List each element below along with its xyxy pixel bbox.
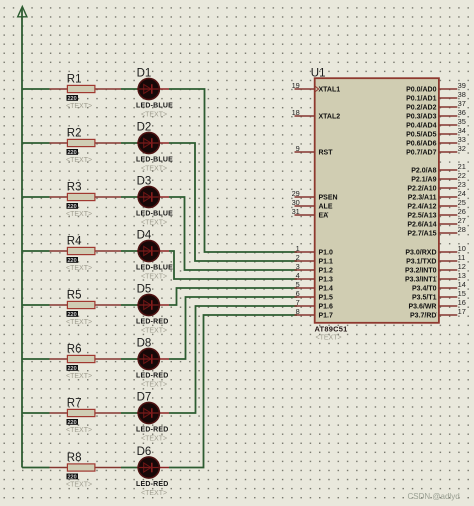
pin 19 XTAL1 (left) (292, 81, 341, 93)
wire: LED D1 to U1 pin P1.0 (169, 89, 297, 252)
wire: resistor R2 to LED D2 (121, 142, 138, 144)
wire: bus to resistor R7 (22, 412, 50, 414)
LED D1 LED-BLUE (136, 68, 173, 119)
wire: LED D5 to U1 pin P1.4 (169, 288, 297, 305)
svg-text:D3: D3 (137, 176, 152, 188)
svg-text:XTAL2: XTAL2 (319, 114, 341, 121)
svg-text:36: 36 (458, 108, 466, 117)
svg-text:P0.5/AD5: P0.5/AD5 (406, 132, 436, 139)
svg-text:6: 6 (296, 289, 300, 298)
svg-text:P1.2: P1.2 (319, 268, 334, 275)
svg-text:220: 220 (68, 150, 77, 156)
svg-text:D6: D6 (137, 446, 152, 458)
svg-text:PSEN: PSEN (319, 195, 338, 202)
wire: resistor R8 to LED D6 (121, 467, 138, 469)
svg-text:P1.3: P1.3 (319, 277, 334, 284)
pin 31 EA (left) (292, 207, 329, 219)
svg-text:P2.0/A8: P2.0/A8 (411, 168, 436, 175)
svg-text:P1.6: P1.6 (319, 304, 334, 311)
svg-text:RST: RST (319, 150, 334, 157)
svg-text:LED-BLUE: LED-BLUE (136, 265, 173, 272)
svg-text:R1: R1 (67, 74, 82, 86)
svg-text:24: 24 (458, 189, 466, 198)
svg-text:23: 23 (458, 180, 466, 189)
pin 27 P2.6/A14 (right) (407, 216, 466, 228)
svg-text:ALE: ALE (319, 204, 333, 211)
wire: resistor R4 to LED D4 (121, 250, 138, 252)
svg-text:<TEXT>: <TEXT> (141, 220, 167, 227)
pin 10 P3.0/RXD (right) (405, 244, 465, 256)
pin 35 P0.4/AD4 (right) (406, 117, 466, 129)
svg-text:P2.5/A13: P2.5/A13 (407, 213, 436, 220)
svg-text:39: 39 (458, 81, 466, 90)
wire: resistor R3 to LED D3 (121, 196, 138, 198)
svg-text:<TEXT>: <TEXT> (141, 274, 167, 281)
svg-text:4: 4 (296, 271, 300, 280)
svg-text:16: 16 (458, 298, 466, 307)
svg-text:AT89C51: AT89C51 (315, 325, 348, 334)
svg-text:R8: R8 (67, 452, 82, 464)
pin 24 P2.3/A11 (right) (408, 189, 466, 201)
svg-text:P2.6/A14: P2.6/A14 (407, 222, 436, 229)
svg-text:R2: R2 (67, 128, 82, 140)
svg-text:P3.4/T0: P3.4/T0 (412, 286, 437, 293)
svg-text:220: 220 (68, 312, 77, 318)
pin 18 XTAL2 (left) (292, 108, 341, 120)
svg-text:P2.7/A15: P2.7/A15 (407, 231, 436, 238)
svg-text:<TEXT>: <TEXT> (141, 436, 167, 443)
svg-text:P0.2/AD2: P0.2/AD2 (406, 105, 436, 112)
svg-text:11: 11 (458, 253, 466, 262)
wire: bus to resistor R3 (22, 196, 50, 198)
svg-text:14: 14 (458, 280, 466, 289)
pin 22 P2.1/A9 (right) (411, 171, 466, 183)
pin 15 P3.5/T1 (right) (412, 289, 466, 301)
svg-text:8: 8 (296, 307, 300, 316)
svg-text:P0.7/AD7: P0.7/AD7 (406, 150, 436, 157)
wire: LED D3 to U1 pin P1.2 (169, 197, 297, 270)
svg-text:P2.3/A11: P2.3/A11 (408, 195, 437, 202)
svg-text:P3.7/RD: P3.7/RD (410, 313, 436, 320)
svg-text:29: 29 (292, 189, 300, 198)
svg-text:P3.2/INT0: P3.2/INT0 (405, 268, 437, 275)
svg-text:21: 21 (458, 162, 466, 171)
wire: bus to resistor R5 (22, 304, 50, 306)
svg-text:U1: U1 (311, 68, 326, 80)
svg-text:LED-BLUE: LED-BLUE (136, 157, 173, 164)
wire: LED D8 to U1 pin P1.5 (169, 297, 297, 359)
svg-text:R3: R3 (67, 182, 82, 194)
pin 37 P0.2/AD2 (right) (406, 99, 466, 111)
wire: LED D2 to U1 pin P1.1 (169, 143, 297, 261)
svg-text:R7: R7 (67, 398, 82, 410)
svg-text:33: 33 (458, 135, 466, 144)
wire: bus to resistor R2 (22, 142, 50, 144)
svg-text:9: 9 (296, 144, 300, 153)
pin 12 P3.2/INT0 (right) (405, 262, 466, 274)
IC U1 AT89C51 body (311, 68, 439, 342)
svg-text:15: 15 (458, 289, 466, 298)
pin 32 P0.7/AD7 (right) (406, 144, 466, 156)
wire: bus to resistor R8 (22, 467, 50, 469)
svg-text:32: 32 (458, 144, 466, 153)
svg-text:25: 25 (458, 198, 466, 207)
pin 17 P3.7/RD (right) (410, 307, 466, 319)
svg-text:220: 220 (68, 420, 77, 426)
svg-text:P2.2/A10: P2.2/A10 (407, 186, 436, 193)
svg-text:LED-BLUE: LED-BLUE (136, 103, 173, 110)
svg-text:LED-RED: LED-RED (136, 427, 169, 434)
svg-text:<TEXT>: <TEXT> (66, 265, 92, 272)
svg-text:<TEXT>: <TEXT> (141, 112, 167, 119)
svg-text:XTAL1: XTAL1 (319, 87, 341, 94)
svg-text:22: 22 (458, 171, 466, 180)
pin 34 P0.5/AD5 (right) (406, 126, 466, 138)
wire: LED D6 to U1 pin P1.7 (169, 315, 297, 468)
svg-text:1: 1 (296, 244, 300, 253)
pin 25 P2.4/A12 (right) (407, 198, 466, 210)
svg-text:26: 26 (458, 207, 466, 216)
svg-text:12: 12 (458, 262, 466, 271)
pin 1 P1.0 (left) (295, 244, 334, 256)
pin 6 P1.5 (left) (295, 289, 334, 301)
svg-text:<TEXT>: <TEXT> (66, 373, 92, 380)
pin 8 P1.7 (left) (295, 307, 334, 319)
wire: bus to resistor R6 (22, 358, 50, 360)
svg-text:P3.6/WR: P3.6/WR (408, 304, 436, 311)
pin 2 P1.1 (left) (295, 253, 334, 265)
resistor R1 220 (50, 74, 122, 110)
pin 36 P0.3/AD3 (right) (406, 108, 466, 120)
svg-text:D1: D1 (137, 68, 152, 80)
svg-text:LED-RED: LED-RED (136, 319, 169, 326)
svg-text:P2.1/A9: P2.1/A9 (411, 177, 436, 184)
wire: resistor R7 to LED D7 (121, 412, 138, 414)
svg-text:27: 27 (458, 216, 466, 225)
svg-text:P3.1/TXD: P3.1/TXD (406, 259, 436, 266)
svg-text:<TEXT>: <TEXT> (66, 211, 92, 218)
pin 11 P3.1/TXD (right) (406, 253, 465, 265)
pin 14 P3.4/T0 (right) (412, 280, 466, 292)
svg-text:<TEXT>: <TEXT> (141, 382, 167, 389)
svg-text:P1.1: P1.1 (319, 259, 334, 266)
svg-text:30: 30 (292, 198, 300, 207)
svg-text:37: 37 (458, 99, 466, 108)
pin 23 P2.2/A10 (right) (407, 180, 466, 192)
wire: resistor R1 to LED D1 (121, 88, 138, 90)
LED D8 LED-RED (136, 338, 169, 389)
svg-text:220: 220 (68, 474, 77, 480)
svg-text:EA: EA (319, 213, 329, 220)
LED D4 LED-BLUE (136, 230, 173, 281)
LED D3 LED-BLUE (136, 176, 173, 227)
svg-text:P0.3/AD3: P0.3/AD3 (406, 114, 436, 121)
svg-text:220: 220 (68, 96, 77, 102)
svg-text:28: 28 (458, 225, 466, 234)
svg-text:<TEXT>: <TEXT> (316, 335, 342, 342)
pin 3 P1.2 (left) (295, 262, 334, 274)
pin 30 ALE (left) (292, 198, 333, 210)
svg-text:P3.0/RXD: P3.0/RXD (405, 250, 436, 257)
svg-text:3: 3 (296, 262, 300, 271)
svg-text:R4: R4 (67, 236, 82, 248)
svg-text:220: 220 (68, 258, 77, 264)
svg-text:P1.5: P1.5 (319, 295, 334, 302)
wire: bus to resistor R1 (22, 88, 50, 90)
svg-text:P1.4: P1.4 (319, 286, 334, 293)
svg-text:2: 2 (296, 253, 300, 262)
svg-text:P0.4/AD4: P0.4/AD4 (406, 123, 436, 130)
svg-text:CSDN @adlyd: CSDN @adlyd (408, 492, 460, 501)
pin 29 PSEN (left) (292, 189, 338, 201)
pin 28 P2.7/A15 (right) (407, 225, 466, 237)
power symbol VCC arrow (18, 7, 27, 17)
LED D2 LED-BLUE (136, 122, 173, 173)
svg-text:P0.0/AD0: P0.0/AD0 (406, 87, 436, 94)
pin 7 P1.6 (left) (295, 298, 334, 310)
pin 5 P1.4 (left) (295, 280, 334, 292)
svg-text:R5: R5 (67, 290, 82, 302)
svg-text:P3.3/INT1: P3.3/INT1 (405, 277, 437, 284)
LED D5 LED-RED (136, 284, 169, 335)
svg-text:<TEXT>: <TEXT> (66, 319, 92, 326)
svg-text:P1.0: P1.0 (319, 250, 334, 257)
pin 16 P3.6/WR (right) (408, 298, 465, 310)
pin 21 P2.0/A8 (right) (411, 162, 466, 174)
svg-text:<TEXT>: <TEXT> (66, 103, 92, 110)
svg-text:D7: D7 (137, 392, 152, 404)
svg-text:D5: D5 (137, 284, 152, 296)
svg-text:D8: D8 (137, 338, 152, 350)
pin 13 P3.3/INT1 (right) (405, 271, 466, 283)
svg-text:10: 10 (458, 244, 466, 253)
svg-text:17: 17 (458, 307, 466, 316)
svg-text:<TEXT>: <TEXT> (66, 482, 92, 489)
pin 39 P0.0/AD0 (right) (406, 81, 466, 93)
svg-text:P3.5/T1: P3.5/T1 (412, 295, 437, 302)
resistor R8 220 (50, 452, 122, 488)
resistor R4 220 (50, 236, 122, 272)
wire: LED D4 to U1 pin P1.3 (169, 251, 297, 279)
pin 33 P0.6/AD6 (right) (406, 135, 466, 147)
svg-text:P2.4/A12: P2.4/A12 (407, 204, 436, 211)
svg-text:5: 5 (296, 280, 300, 289)
svg-text:38: 38 (458, 90, 466, 99)
svg-text:31: 31 (292, 207, 300, 216)
LED D7 LED-RED (136, 392, 169, 443)
svg-text:220: 220 (68, 366, 77, 372)
svg-text:LED-RED: LED-RED (136, 481, 169, 488)
svg-text:<TEXT>: <TEXT> (141, 328, 167, 335)
resistor R3 220 (50, 182, 122, 218)
svg-text:<TEXT>: <TEXT> (66, 427, 92, 434)
wire: LED D7 to U1 pin P1.6 (169, 306, 297, 413)
pin 4 P1.3 (left) (295, 271, 334, 283)
resistor R6 220 (50, 344, 122, 380)
wire: resistor R5 to LED D5 (121, 304, 138, 306)
svg-text:<TEXT>: <TEXT> (141, 166, 167, 173)
svg-text:220: 220 (68, 204, 77, 210)
svg-text:<TEXT>: <TEXT> (141, 490, 167, 497)
svg-text:LED-RED: LED-RED (136, 373, 169, 380)
resistor R5 220 (50, 290, 122, 326)
svg-text:P0.1/AD1: P0.1/AD1 (406, 96, 436, 103)
svg-text:34: 34 (458, 126, 466, 135)
svg-text:<TEXT>: <TEXT> (66, 157, 92, 164)
svg-text:LED-BLUE: LED-BLUE (136, 211, 173, 218)
wire: bus to resistor R4 (22, 250, 50, 252)
svg-text:35: 35 (458, 117, 466, 126)
svg-text:P0.6/AD6: P0.6/AD6 (406, 141, 436, 148)
wire: left vertical bus (21, 8, 23, 468)
svg-text:P1.7: P1.7 (319, 313, 334, 320)
LED D6 LED-RED (136, 446, 169, 497)
resistor R7 220 (50, 398, 122, 434)
svg-text:18: 18 (292, 108, 300, 117)
svg-text:D2: D2 (137, 122, 152, 134)
wire: resistor R6 to LED D8 (121, 358, 138, 360)
pin 9 RST (left) (295, 144, 334, 156)
svg-text:7: 7 (296, 298, 300, 307)
svg-text:13: 13 (458, 271, 466, 280)
svg-text:19: 19 (292, 81, 300, 90)
svg-text:D4: D4 (137, 230, 152, 242)
svg-text:R6: R6 (67, 344, 82, 356)
resistor R2 220 (50, 128, 122, 164)
pin 38 P0.1/AD1 (right) (406, 90, 466, 102)
pin 26 P2.5/A13 (right) (407, 207, 466, 219)
